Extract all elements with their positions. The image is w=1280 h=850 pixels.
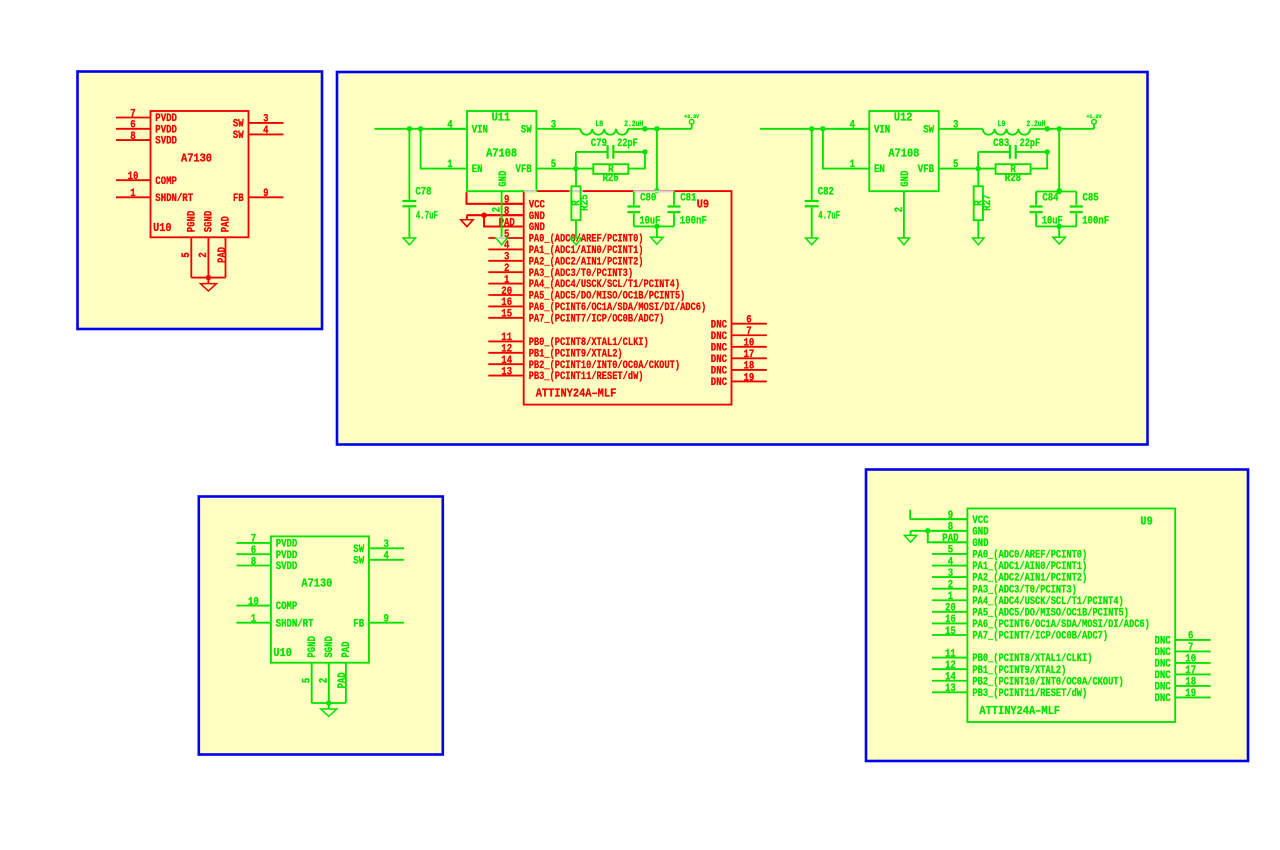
svg-text:20: 20 xyxy=(945,603,956,615)
pin 19 DNC (U9) xyxy=(711,372,767,389)
svg-text:10: 10 xyxy=(744,338,755,350)
junction C/R right xyxy=(642,149,647,154)
svg-text:A7130: A7130 xyxy=(301,577,332,591)
ground symbol at U9 GND xyxy=(461,215,473,226)
svg-text:7: 7 xyxy=(746,326,751,338)
ground symbol under C78 xyxy=(403,238,415,245)
svg-text:18: 18 xyxy=(1185,677,1196,689)
svg-text:DNC: DNC xyxy=(711,331,728,343)
svg-text:10: 10 xyxy=(248,596,259,608)
svg-text:100nF: 100nF xyxy=(1082,216,1109,228)
svg-text:R26: R26 xyxy=(603,173,619,185)
svg-text:PB1_(PCINT9/XTAL2): PB1_(PCINT9/XTAL2) xyxy=(972,665,1066,677)
svg-text:PA0_(ADC0/AREF/PCINT0): PA0_(ADC0/AREF/PCINT0) xyxy=(529,234,644,246)
svg-text:DNC: DNC xyxy=(1155,659,1172,671)
wire cap bottom rail xyxy=(1036,225,1076,227)
svg-text:17: 17 xyxy=(744,349,755,361)
wire VCC to old regulator (removed) xyxy=(467,192,524,204)
wire C to VFB node xyxy=(977,152,979,169)
svg-text:11: 11 xyxy=(945,648,956,660)
svg-text:C82: C82 xyxy=(818,187,834,199)
junction on ground bus xyxy=(326,700,331,705)
pin 12 PB1 (U9) xyxy=(932,660,1066,677)
pin 10 COMP (U10) xyxy=(116,171,177,188)
junction at cap top wire xyxy=(654,188,659,193)
svg-text:SGND: SGND xyxy=(324,636,336,658)
svg-text:SW: SW xyxy=(923,124,934,136)
svg-text:SHDN/RT: SHDN/RT xyxy=(155,193,193,205)
junction VIN/EN xyxy=(418,126,423,131)
pin 7 PVDD (U10) xyxy=(236,534,297,551)
svg-text:VIN: VIN xyxy=(472,124,488,136)
power symbol +3.3V xyxy=(684,113,700,129)
pin 3 SW (U11) xyxy=(521,119,572,136)
svg-text:R27: R27 xyxy=(982,194,994,211)
pin 5 VFB (U12) xyxy=(918,159,974,176)
capacitor C82 4.7uF xyxy=(805,129,841,238)
svg-text:PA4_(ADC4/USCK/SCL/T1/PCINT4): PA4_(ADC4/USCK/SCL/T1/PCINT4) xyxy=(972,596,1123,608)
svg-text:GND: GND xyxy=(972,538,989,550)
IC U9 ATTINY24A-MLF body xyxy=(524,191,732,405)
ground symbol under output caps xyxy=(651,226,663,244)
wire ground bus under U10 xyxy=(191,277,225,279)
svg-text:DNC: DNC xyxy=(711,366,728,378)
wire R to junction xyxy=(1031,152,1048,169)
svg-text:2.2uH: 2.2uH xyxy=(624,120,643,129)
junction VIN/EN xyxy=(820,126,825,131)
pin 5 VFB (U11) xyxy=(516,159,572,176)
junction on ground bus xyxy=(206,275,211,280)
IC U10 A7130 body (box3) xyxy=(271,536,369,662)
svg-text:GND: GND xyxy=(529,222,546,234)
wire SW output xyxy=(1030,128,1094,130)
svg-text:4.7uF: 4.7uF xyxy=(818,211,840,223)
wire cap top rail xyxy=(1036,191,1076,193)
wire GND net (removed) xyxy=(467,214,524,216)
pin 4 SW (U10) xyxy=(233,125,284,142)
pin 12 PB1 (U9) xyxy=(488,344,622,361)
pin 1 SHDN/RT (U10) xyxy=(116,188,194,205)
svg-text:PGND: PGND xyxy=(307,636,319,658)
pin 14 PB2 (U9) xyxy=(932,672,1124,689)
junction VIN/C bypass xyxy=(407,126,412,131)
pin 9 FB (U10) xyxy=(353,614,404,631)
svg-text:C83: C83 xyxy=(993,138,1009,150)
wire PAD to GND xyxy=(484,215,524,226)
svg-text:PVDD: PVDD xyxy=(155,124,177,136)
pin 8 GND (U9) xyxy=(488,206,545,223)
pin 1 SHDN/RT (U10) xyxy=(236,614,314,631)
svg-text:PB0_(PCINT8/XTAL1/CLKI): PB0_(PCINT8/XTAL1/CLKI) xyxy=(529,337,649,349)
svg-text:PA5_(ADC5/DO/MISO/OC1B/PCINT5): PA5_(ADC5/DO/MISO/OC1B/PCINT5) xyxy=(529,291,686,303)
pin 1 EN (U12) xyxy=(834,159,885,176)
resistor R28 xyxy=(996,164,1031,185)
svg-text:PVDD: PVDD xyxy=(276,550,298,562)
pin 3 PA2 (U9) xyxy=(488,252,643,269)
svg-text:VIN: VIN xyxy=(874,124,890,136)
svg-text:PA7_(PCINT7/ICP/OC0B/ADC7): PA7_(PCINT7/ICP/OC0B/ADC7) xyxy=(529,313,665,325)
pin 8 SVDD (U10) xyxy=(236,556,297,573)
svg-text:PB3_(PCINT11/RESET/dW): PB3_(PCINT11/RESET/dW) xyxy=(529,371,644,383)
pin PAD PAD (U10) xyxy=(337,641,353,703)
wire GND xyxy=(467,214,524,216)
pin 4 VIN (U11) xyxy=(432,119,488,136)
svg-text:GND: GND xyxy=(900,170,912,186)
junction VFB node xyxy=(573,166,578,171)
power symbol +1.2V xyxy=(1087,113,1103,129)
svg-text:9: 9 xyxy=(948,510,953,522)
svg-text:22pF: 22pF xyxy=(1020,138,1041,150)
svg-text:SW: SW xyxy=(353,544,364,556)
svg-text:DNC: DNC xyxy=(711,319,728,331)
svg-text:PAD: PAD xyxy=(217,247,229,263)
svg-text:16: 16 xyxy=(501,297,512,309)
svg-text:PA3_(ADC3/T0/PCINT3): PA3_(ADC3/T0/PCINT3) xyxy=(972,584,1076,596)
svg-text:11: 11 xyxy=(501,332,512,344)
panel frame 1 (top-left, red A7130 sheet) xyxy=(78,72,323,330)
svg-text:DNC: DNC xyxy=(1155,682,1172,694)
svg-text:10: 10 xyxy=(128,171,139,183)
svg-text:C81: C81 xyxy=(680,192,697,204)
inductor L8 2.2uH xyxy=(572,120,643,135)
pin 2 GND (U12) xyxy=(894,170,912,238)
svg-text:PA7_(PCINT7/ICP/OC0B/ADC7): PA7_(PCINT7/ICP/OC0B/ADC7) xyxy=(972,631,1108,643)
junction output caps xyxy=(1057,126,1062,131)
ground symbol under U10 xyxy=(321,703,337,716)
svg-text:2: 2 xyxy=(948,579,953,591)
svg-text:SW: SW xyxy=(233,130,244,142)
svg-text:3: 3 xyxy=(384,539,389,551)
svg-text:10: 10 xyxy=(1185,654,1196,666)
pin 16 PA6 (U9) xyxy=(932,614,1150,631)
wire VFB to R xyxy=(974,168,996,170)
svg-text:VFB: VFB xyxy=(516,164,533,176)
wire PAD (removed) xyxy=(484,215,524,226)
svg-text:7: 7 xyxy=(251,534,256,546)
svg-text:5: 5 xyxy=(953,159,958,171)
junction feedback divider xyxy=(642,126,647,131)
svg-text:VFB: VFB xyxy=(918,164,935,176)
ground symbol under C82 xyxy=(806,238,818,245)
svg-text:PB1_(PCINT9/XTAL2): PB1_(PCINT9/XTAL2) xyxy=(529,348,623,360)
svg-text:3: 3 xyxy=(263,114,268,126)
pin 6 DNC (U9) xyxy=(1155,631,1211,648)
svg-text:C79: C79 xyxy=(591,138,607,150)
svg-text:1: 1 xyxy=(251,614,257,626)
svg-text:14: 14 xyxy=(501,355,512,367)
capacitor C83 22pF xyxy=(978,138,1047,159)
pin PAD PAD (U10) xyxy=(217,216,233,278)
svg-text:6: 6 xyxy=(1188,631,1193,643)
resistor R27 xyxy=(973,169,994,238)
svg-text:15: 15 xyxy=(501,309,512,321)
svg-text:C84: C84 xyxy=(1042,192,1059,204)
capacitor C84 10uF xyxy=(1030,192,1063,228)
svg-text:L8: L8 xyxy=(595,120,603,129)
wire cap top rail (overlap gray) xyxy=(633,191,674,193)
svg-text:9: 9 xyxy=(263,188,268,200)
svg-text:PA6_(PCINT6/OC1A/SDA/MOSI/DI/A: PA6_(PCINT6/OC1A/SDA/MOSI/DI/ADC6) xyxy=(972,619,1149,631)
pin 6 PVDD (U10) xyxy=(116,120,177,137)
pin 6 PVDD (U10) xyxy=(236,545,297,562)
junction VFB node xyxy=(976,166,981,171)
svg-text:PVDD: PVDD xyxy=(276,539,298,551)
pin 7 PVDD (U10) xyxy=(116,108,177,125)
pin 3 SW (U12) xyxy=(923,119,974,136)
panel frame 2 (top-right, diff sheet) xyxy=(337,72,1148,445)
svg-text:DNC: DNC xyxy=(711,377,728,389)
pin 17 DNC (U9) xyxy=(711,349,767,366)
svg-text:1: 1 xyxy=(850,159,856,171)
ground symbol at U9 GND xyxy=(904,531,916,542)
panel frame 4 (bottom-right, green ATTINY sheet) xyxy=(866,470,1248,762)
svg-text:PA0_(ADC0/AREF/PCINT0): PA0_(ADC0/AREF/PCINT0) xyxy=(972,550,1087,562)
pin 2 GND (U11) xyxy=(492,170,510,238)
svg-text:8: 8 xyxy=(948,522,953,534)
pin 17 DNC (U9) xyxy=(1155,665,1211,682)
svg-text:PA1_(ADC1/AIN0/PCINT1): PA1_(ADC1/AIN0/PCINT1) xyxy=(972,561,1087,573)
pin 4 SW (U10) xyxy=(353,551,404,568)
svg-text:1: 1 xyxy=(948,591,954,603)
svg-text:GND: GND xyxy=(498,170,510,186)
svg-text:SW: SW xyxy=(233,119,244,131)
ground symbol under U10 xyxy=(200,278,216,291)
svg-text:7: 7 xyxy=(130,108,135,120)
junction cap bottom xyxy=(654,224,659,229)
wire R to junction xyxy=(628,152,645,169)
ground symbol under R25 xyxy=(570,238,581,245)
svg-text:2: 2 xyxy=(504,263,509,275)
svg-text:PA6_(PCINT6/OC1A/SDA/MOSI/DI/A: PA6_(PCINT6/OC1A/SDA/MOSI/DI/ADC6) xyxy=(529,302,706,314)
svg-text:12: 12 xyxy=(501,344,512,356)
wire SW junction down to output caps xyxy=(656,129,658,192)
svg-text:1: 1 xyxy=(130,188,136,200)
svg-text:VCC: VCC xyxy=(972,515,989,527)
svg-text:8: 8 xyxy=(130,131,135,143)
svg-text:PB3_(PCINT11/RESET/dW): PB3_(PCINT11/RESET/dW) xyxy=(972,688,1087,700)
gray overlap of PA0 pin line and ground bar xyxy=(496,237,505,239)
svg-text:DNC: DNC xyxy=(1155,636,1172,648)
pin 1 PA4 (U9) xyxy=(488,274,680,291)
svg-text:15: 15 xyxy=(945,626,956,638)
svg-text:5: 5 xyxy=(551,159,556,171)
wire PAD to GND xyxy=(928,531,968,543)
svg-text:16: 16 xyxy=(945,614,956,626)
pin 2 SGND (U10) xyxy=(318,636,336,703)
svg-text:SVDD: SVDD xyxy=(276,561,298,573)
pin 4 PA1 (U9) xyxy=(488,240,643,257)
svg-text:PA2_(ADC2/AIN1/PCINT2): PA2_(ADC2/AIN1/PCINT2) xyxy=(972,573,1087,585)
capacitor C79 22pF xyxy=(576,138,645,159)
svg-text:C85: C85 xyxy=(1083,192,1099,204)
pin 13 PB3 (U9) xyxy=(932,683,1087,700)
svg-text:PAD: PAD xyxy=(942,533,959,545)
pin 10 DNC (U9) xyxy=(1155,654,1211,671)
svg-text:PB2_(PCINT10/INT0/OC0A/CKOUT): PB2_(PCINT10/INT0/OC0A/CKOUT) xyxy=(529,360,680,372)
junction VIN/C bypass xyxy=(809,126,814,131)
svg-text:PAD: PAD xyxy=(341,641,353,657)
pin 11 PB0 (U9) xyxy=(932,648,1092,665)
ground symbol under output caps xyxy=(1053,226,1065,244)
svg-text:PA2_(ADC2/AIN1/PCINT2): PA2_(ADC2/AIN1/PCINT2) xyxy=(529,256,644,268)
pin 11 PB0 (U9) xyxy=(488,332,648,349)
IC U11 A7108 body xyxy=(467,111,536,191)
svg-text:18: 18 xyxy=(744,361,755,373)
pin 1 PA4 (U9) xyxy=(932,591,1124,608)
svg-text:EN: EN xyxy=(874,164,885,176)
ground symbol (removed) xyxy=(461,215,473,226)
pin 20 PA5 (U9) xyxy=(488,286,685,303)
svg-text:PAD: PAD xyxy=(221,216,233,232)
pin 16 PA6 (U9) xyxy=(488,297,706,314)
svg-text:C78: C78 xyxy=(415,187,431,199)
IC U9 ATTINY24A-MLF body xyxy=(967,509,1175,723)
pin 9 VCC (U9) xyxy=(488,195,545,212)
svg-text:PGND: PGND xyxy=(187,210,199,232)
svg-text:PAD: PAD xyxy=(337,672,349,688)
svg-text:C80: C80 xyxy=(640,192,656,204)
wire SW junction down to output caps xyxy=(1058,129,1060,192)
wire C to VFB node xyxy=(575,152,577,169)
pin 14 PB2 (U9) xyxy=(488,355,680,372)
svg-text:1: 1 xyxy=(504,274,510,286)
pin 3 SW (U10) xyxy=(353,539,404,556)
pin 10 DNC (U9) xyxy=(711,338,767,355)
svg-text:3: 3 xyxy=(953,119,958,131)
svg-text:8: 8 xyxy=(251,556,256,568)
svg-text:FB: FB xyxy=(233,193,244,205)
svg-text:U9: U9 xyxy=(697,197,709,211)
svg-text:DNC: DNC xyxy=(1155,693,1172,705)
pin 6 DNC (U9) xyxy=(711,315,767,332)
pin 13 PB3 (U9) xyxy=(488,366,643,383)
junction C/R right xyxy=(1045,149,1050,154)
wire VCC stub xyxy=(910,510,967,520)
IC U12 A7108 body xyxy=(869,111,938,191)
svg-text:A7130: A7130 xyxy=(181,151,212,165)
svg-text:5: 5 xyxy=(181,252,193,257)
svg-text:5: 5 xyxy=(948,545,953,557)
svg-text:17: 17 xyxy=(1185,665,1196,677)
svg-text:6: 6 xyxy=(251,545,256,557)
pin 4 VIN (U12) xyxy=(834,119,890,136)
svg-text:4: 4 xyxy=(384,551,390,563)
junction GND/PAD xyxy=(925,528,930,533)
pin 20 PA5 (U9) xyxy=(932,603,1129,620)
junction feedback divider xyxy=(1045,126,1050,131)
svg-text:L9: L9 xyxy=(998,120,1006,129)
wire VCC stub xyxy=(467,192,524,204)
svg-text:2.2uH: 2.2uH xyxy=(1026,120,1045,129)
pin 15 PA7 (U9) xyxy=(932,626,1108,643)
svg-text:6: 6 xyxy=(746,315,751,327)
svg-text:FB: FB xyxy=(353,618,364,630)
svg-text:2: 2 xyxy=(318,678,330,683)
svg-text:U10: U10 xyxy=(153,221,172,235)
pin 10 COMP (U10) xyxy=(236,596,297,613)
ground symbol at GND pin of U12 xyxy=(898,238,909,245)
svg-text:U12: U12 xyxy=(894,111,913,125)
junction output caps xyxy=(654,126,659,131)
junction cap bottom xyxy=(1057,224,1062,229)
svg-text:+3.3V: +3.3V xyxy=(684,113,700,120)
pin 5 PGND (U10) xyxy=(301,636,319,703)
pin 5 PA0 (U9) xyxy=(488,229,643,246)
junction GND/PAD xyxy=(481,213,486,218)
resistor R26 xyxy=(593,164,628,185)
svg-text:100nF: 100nF xyxy=(680,216,707,228)
svg-text:VCC: VCC xyxy=(529,199,546,211)
svg-text:14: 14 xyxy=(945,672,956,684)
pin 3 PA2 (U9) xyxy=(932,568,1087,585)
svg-text:PVDD: PVDD xyxy=(155,113,177,125)
svg-text:SVDD: SVDD xyxy=(155,136,177,148)
pin 18 DNC (U9) xyxy=(711,361,767,378)
pin 5 PGND (U10) xyxy=(181,210,199,277)
pin 2 PA3 (U9) xyxy=(488,263,633,280)
svg-text:SGND: SGND xyxy=(204,210,216,232)
svg-text:4.7uF: 4.7uF xyxy=(416,211,438,223)
capacitor C80 10uF xyxy=(627,192,660,228)
capacitor C85 100nF xyxy=(1070,192,1109,228)
svg-text:9: 9 xyxy=(384,614,389,626)
svg-text:22pF: 22pF xyxy=(617,138,638,150)
pin 1 EN (U11) xyxy=(432,159,483,176)
svg-text:COMP: COMP xyxy=(276,601,298,613)
pin 8 SVDD (U10) xyxy=(116,131,177,148)
pin 9 VCC (U9) xyxy=(932,510,989,527)
svg-text:U11: U11 xyxy=(492,111,511,125)
pin 8 GND (U9) xyxy=(932,522,989,539)
svg-text:U10: U10 xyxy=(273,646,292,660)
svg-text:4: 4 xyxy=(948,556,954,568)
svg-text:GND: GND xyxy=(529,211,546,223)
svg-text:8: 8 xyxy=(504,206,509,218)
svg-text:ATTINY24A–MLF: ATTINY24A–MLF xyxy=(979,704,1060,718)
inductor L9 2.2uH xyxy=(974,120,1045,135)
svg-text:ATTINY24A–MLF: ATTINY24A–MLF xyxy=(536,387,617,401)
svg-text:R25: R25 xyxy=(580,194,592,211)
capacitor C81 100nF xyxy=(668,192,707,228)
wire EN to VIN xyxy=(421,129,432,169)
svg-text:1: 1 xyxy=(447,159,453,171)
gray overlap U11 bottom edge / U9 top edge xyxy=(524,190,536,192)
svg-text:R28: R28 xyxy=(1005,173,1021,185)
svg-text:SW: SW xyxy=(521,124,532,136)
wire EN to VIN xyxy=(823,129,834,169)
svg-text:20: 20 xyxy=(501,286,512,298)
svg-text:2: 2 xyxy=(894,207,906,212)
pin 4 PA1 (U9) xyxy=(932,556,1087,573)
svg-text:3: 3 xyxy=(504,252,509,264)
pin 9 FB (U10) xyxy=(233,188,284,205)
svg-text:19: 19 xyxy=(744,372,755,384)
svg-text:U9: U9 xyxy=(1140,515,1152,529)
pin PAD GND (U9) xyxy=(488,217,545,234)
svg-text:7: 7 xyxy=(1188,642,1193,654)
svg-text:3: 3 xyxy=(551,119,556,131)
capacitor C78 4.7uF xyxy=(402,129,438,238)
svg-text:5: 5 xyxy=(301,678,313,683)
wire cap bottom rail xyxy=(634,225,674,227)
pin 7 DNC (U9) xyxy=(1155,642,1211,659)
svg-text:DNC: DNC xyxy=(1155,647,1172,659)
svg-text:DNC: DNC xyxy=(1155,670,1172,682)
pin 7 DNC (U9) xyxy=(711,326,767,343)
svg-text:13: 13 xyxy=(945,683,956,695)
svg-text:PB0_(PCINT8/XTAL1/CLKI): PB0_(PCINT8/XTAL1/CLKI) xyxy=(972,653,1092,665)
gray overlap R25 body / U9 top edge xyxy=(569,190,582,192)
